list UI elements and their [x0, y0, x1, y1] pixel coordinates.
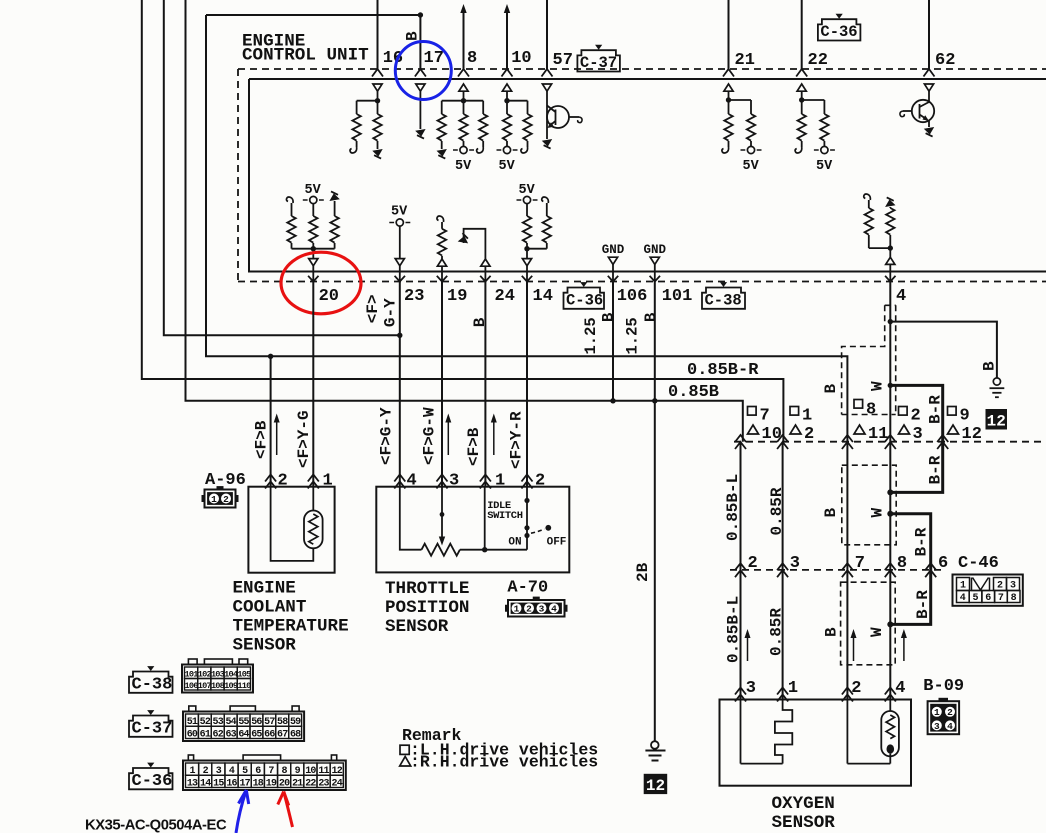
- svg-text:W: W: [868, 627, 886, 637]
- svg-text:A-96: A-96: [205, 471, 246, 490]
- svg-text:POSITION: POSITION: [385, 598, 469, 618]
- oxygen sensor element (meander): [740, 700, 742, 764]
- svg-text:B-R: B-R: [912, 527, 930, 556]
- svg-text:101: 101: [662, 287, 693, 306]
- svg-text:12: 12: [962, 425, 982, 444]
- junction block C-38 pin grid: [182, 659, 253, 693]
- svg-text:2: 2: [851, 679, 861, 698]
- svg-text:C-37: C-37: [580, 54, 617, 72]
- svg-text:KX35-AC-Q0504A-EC: KX35-AC-Q0504A-EC: [85, 818, 227, 833]
- svg-text:62: 62: [935, 51, 955, 70]
- pin square 8 / triangle 11: [854, 400, 863, 409]
- svg-text:5: 5: [972, 593, 978, 604]
- junction block C-37 pin grid: [183, 706, 304, 741]
- svg-text:ENGINE: ENGINE: [233, 579, 296, 599]
- svg-text:17: 17: [424, 49, 444, 68]
- svg-text:0.85B-L: 0.85B-L: [724, 596, 742, 663]
- svg-text:20: 20: [319, 287, 339, 306]
- svg-text:OXYGEN: OXYGEN: [772, 794, 835, 814]
- svg-text:C-46: C-46: [958, 554, 999, 573]
- svg-text:B: B: [822, 384, 840, 394]
- engine control unit ECU dashed border: [238, 68, 1046, 70]
- wire V4 B net across to oxygen column: [206, 15, 847, 442]
- svg-text:SWITCH: SWITCH: [487, 510, 523, 522]
- svg-text:<F>B: <F>B: [252, 420, 270, 459]
- svg-text:60: 60: [187, 729, 198, 740]
- svg-text:2: 2: [911, 407, 921, 426]
- svg-text:23: 23: [404, 287, 424, 306]
- branch arrow element at pin 24: [458, 233, 471, 246]
- svg-text:B-R: B-R: [926, 455, 944, 484]
- C-46 pin 8: [885, 563, 896, 577]
- svg-text:2: 2: [947, 707, 953, 718]
- wire 2B from pin 101 to ground: [654, 401, 656, 742]
- svg-text:5V: 5V: [391, 205, 408, 220]
- connector label C-36 (top): [818, 19, 861, 40]
- svg-text:1: 1: [802, 407, 812, 426]
- svg-text:C-38: C-38: [705, 291, 742, 309]
- svg-text:C-36: C-36: [820, 23, 857, 41]
- direction arrow (ECT pin2 wire): [276, 420, 278, 456]
- connector C-46 dashed line: [730, 569, 946, 571]
- svg-text:7: 7: [760, 407, 770, 426]
- svg-text:19: 19: [447, 287, 467, 306]
- wire 0.85B-L (pin 10/7 to C-46 pin2): [740, 442, 742, 570]
- svg-text:2: 2: [748, 554, 758, 573]
- wire pin19 to TPS pin3: [441, 282, 443, 488]
- connector label C-36 (mid): [564, 288, 605, 309]
- svg-text:5V: 5V: [499, 159, 516, 174]
- svg-text:21: 21: [292, 778, 303, 789]
- svg-text:1.25: 1.25: [582, 317, 600, 354]
- svg-text:18: 18: [253, 778, 264, 789]
- svg-text:B: B: [980, 361, 998, 371]
- TPS pin 3 terminal: [437, 475, 448, 489]
- svg-text:108: 108: [211, 681, 225, 691]
- svg-text:12: 12: [987, 413, 1006, 431]
- svg-text:B-R: B-R: [926, 395, 944, 424]
- resistor group at pin 10 with 5V supply: [502, 84, 511, 91]
- svg-text:3: 3: [746, 679, 756, 698]
- connector icon C-46: [953, 575, 1023, 606]
- svg-text:TEMPERATURE: TEMPERATURE: [233, 617, 349, 637]
- ECT pin 1 terminal: [308, 475, 319, 489]
- oxygen sensor box: [720, 700, 912, 786]
- dashed option box (B/W wires): [842, 465, 896, 545]
- wire pin20 to ECT pin1: [312, 282, 314, 488]
- svg-text:63: 63: [225, 729, 236, 740]
- svg-text:22: 22: [305, 778, 316, 789]
- svg-text:22: 22: [808, 51, 828, 70]
- svg-text:104: 104: [224, 669, 238, 679]
- pin square 9 / triangle 12: [948, 407, 957, 416]
- svg-text:B: B: [642, 313, 660, 322]
- svg-text:0.85B: 0.85B: [668, 383, 719, 402]
- wire pin 4 column down to inline connector (W net): [889, 282, 891, 442]
- svg-text:4: 4: [947, 721, 953, 732]
- svg-text:0.85R: 0.85R: [768, 487, 786, 535]
- dashed option box upper (stepped): [885, 304, 896, 306]
- wire pin101 to 0.85B line (2B): [654, 282, 656, 401]
- svg-text:3: 3: [539, 604, 545, 615]
- throttle position sensor box: [376, 487, 569, 573]
- svg-text:THROTTLE: THROTTLE: [385, 579, 469, 599]
- wire 0.85R (pin 2/1 to C-46 pin3): [782, 442, 784, 570]
- branch B-R to pin 9/12: [888, 383, 893, 388]
- svg-text:C-38: C-38: [132, 675, 173, 694]
- svg-text:9: 9: [960, 407, 970, 426]
- svg-text:1.25: 1.25: [624, 317, 642, 354]
- svg-text:4: 4: [551, 604, 557, 615]
- svg-text:B: B: [822, 508, 840, 518]
- wire W lower: [889, 570, 891, 700]
- wire ECU pin 8 with top arrow: [463, 12, 465, 69]
- svg-text:COOLANT: COOLANT: [233, 598, 307, 618]
- svg-text:8: 8: [897, 554, 907, 573]
- svg-text:4: 4: [895, 679, 905, 698]
- dashed option box lower: [841, 582, 896, 665]
- svg-text:23: 23: [318, 778, 329, 789]
- svg-text:<F>G-Y: <F>G-Y: [377, 407, 395, 465]
- C-46 pin 7: [842, 563, 853, 577]
- chassis ground symbol (2B): [651, 741, 659, 749]
- svg-text:7: 7: [998, 593, 1004, 604]
- svg-text:A-70: A-70: [507, 579, 548, 598]
- svg-text:1: 1: [934, 707, 940, 718]
- svg-text:57: 57: [553, 51, 573, 70]
- ground wire at pin 17: [416, 84, 425, 91]
- svg-text:CONTROL UNIT: CONTROL UNIT: [242, 46, 369, 66]
- svg-text:12: 12: [646, 777, 665, 795]
- wire B-R below C-46 joining W: [890, 570, 930, 625]
- TPS potentiometer wiring: [400, 487, 422, 550]
- red ellipse highlight on pin 20: [281, 252, 361, 314]
- svg-text:64: 64: [238, 729, 249, 740]
- svg-text:19: 19: [266, 778, 277, 789]
- svg-text:61: 61: [200, 729, 211, 740]
- svg-text:7: 7: [855, 554, 865, 573]
- svg-text:2: 2: [804, 425, 814, 444]
- C-46 pin 3: [777, 563, 788, 577]
- branch to ground B at right: [888, 319, 893, 324]
- svg-text:0.85B-L: 0.85B-L: [724, 474, 742, 541]
- svg-text:SENSOR: SENSOR: [385, 617, 449, 637]
- wire B (pin 11/8 to C-46 pin7): [846, 442, 848, 570]
- svg-text:13: 13: [187, 778, 198, 789]
- svg-text:10: 10: [511, 49, 531, 68]
- resistor group at pin 16: [373, 84, 382, 91]
- wire pin106 to 0.85B line: [612, 282, 614, 401]
- svg-text:W: W: [868, 508, 886, 518]
- svg-text:W: W: [868, 381, 886, 391]
- svg-text:<F>: <F>: [364, 294, 382, 323]
- transistor at pin 62: [924, 84, 933, 91]
- resistor group at pin 8 with 5V supply: [459, 84, 468, 91]
- oxygen sensor heater: [846, 700, 848, 764]
- page reference 12 black box: [986, 409, 1008, 430]
- connector icon A-96: [205, 490, 236, 508]
- C-46 pin 2: [735, 563, 746, 577]
- svg-text:106: 106: [617, 287, 648, 306]
- wire ECU pin 10 with top arrow: [506, 12, 508, 69]
- svg-text:20: 20: [279, 778, 290, 789]
- svg-text:109: 109: [224, 681, 238, 691]
- inline connector dashed line (LH/RH options): [734, 441, 1046, 443]
- oxygen sensor pin 4: [885, 688, 896, 702]
- svg-text:101: 101: [185, 669, 199, 679]
- svg-text:<F>Y-G: <F>Y-G: [295, 410, 313, 468]
- wire ECU pin 57: [546, 0, 548, 69]
- svg-text:2B: 2B: [634, 562, 652, 582]
- svg-text:5V: 5V: [743, 159, 760, 174]
- svg-text::R.H.drive vehicles: :R.H.drive vehicles: [410, 753, 598, 772]
- svg-text:66: 66: [264, 729, 275, 740]
- svg-text:4: 4: [896, 287, 906, 306]
- svg-text:24: 24: [332, 778, 343, 789]
- wire pin23 to TPS pin4: [399, 282, 401, 488]
- svg-text:3: 3: [934, 721, 940, 732]
- wire 0.85R lower: [782, 570, 784, 700]
- wire ECU pin 21: [728, 0, 730, 69]
- wire ECU pin 62: [928, 0, 930, 69]
- svg-text:B: B: [822, 627, 840, 637]
- svg-text:15: 15: [213, 778, 224, 789]
- svg-text:107: 107: [198, 681, 212, 691]
- pin square 2 / triangle 3: [899, 407, 908, 416]
- svg-text:65: 65: [251, 729, 262, 740]
- TPS pin 1 terminal: [480, 475, 491, 489]
- svg-text:14: 14: [200, 778, 211, 789]
- resistor group at pin 21 with 5V supply: [724, 84, 733, 91]
- wire ECT pin2 branch from B net: [270, 356, 272, 487]
- svg-text:0.85B-R: 0.85B-R: [687, 361, 759, 380]
- svg-text:21: 21: [735, 51, 755, 70]
- ground symbol (B wire): [993, 378, 1000, 385]
- svg-text:GND: GND: [644, 243, 667, 257]
- svg-text:105: 105: [237, 669, 251, 679]
- svg-text:6: 6: [985, 593, 991, 604]
- svg-text:3: 3: [790, 554, 800, 573]
- svg-text:<F>B: <F>B: [465, 427, 483, 466]
- resistor above pin 19: [437, 216, 444, 222]
- svg-text:ON: ON: [508, 537, 521, 549]
- connector icon A-70: [508, 600, 565, 617]
- engine coolant temperature sensor box: [248, 487, 334, 573]
- TPS wiper arrow (pin 3): [441, 487, 443, 538]
- svg-text:8: 8: [467, 49, 477, 68]
- wire W1 horizontal to pin 17 (B net): [206, 15, 420, 69]
- svg-text:0.85R: 0.85R: [767, 608, 785, 656]
- wire V2 to pin 23: [164, 0, 400, 335]
- thermistor element: [304, 511, 323, 549]
- svg-text:G-Y: G-Y: [381, 298, 399, 327]
- ECU top pin terminals: [372, 69, 383, 77]
- svg-text:OFF: OFF: [547, 537, 567, 549]
- wire 0.85B-L lower: [740, 570, 742, 700]
- C-46 pin 6: [925, 563, 936, 577]
- svg-text:<F>G-W: <F>G-W: [420, 407, 438, 465]
- svg-text:B: B: [600, 313, 618, 322]
- svg-text:B-R: B-R: [914, 590, 932, 619]
- oxygen sensor pin 3: [735, 688, 746, 702]
- junction block C-36 pin grid: [183, 755, 346, 790]
- resistor group above pin 4: [864, 194, 871, 200]
- svg-text:68: 68: [290, 729, 301, 740]
- svg-text:4: 4: [960, 593, 966, 604]
- remark LH drive line: [400, 745, 409, 754]
- svg-text:8: 8: [866, 401, 876, 420]
- wire ECU pin 22: [801, 0, 803, 69]
- wire ECU pin 16 from top edge: [377, 0, 379, 69]
- svg-text:GND: GND: [602, 243, 625, 257]
- svg-text:3: 3: [913, 425, 923, 444]
- svg-text:17: 17: [239, 778, 250, 789]
- svg-text:8: 8: [1011, 593, 1017, 604]
- wire V1 0.85B-R from top-left: [142, 0, 784, 442]
- svg-text:14: 14: [533, 287, 553, 306]
- svg-text:5V: 5V: [816, 159, 833, 174]
- svg-text:1: 1: [211, 494, 217, 505]
- svg-text:C-36: C-36: [566, 291, 603, 309]
- svg-text:C-36: C-36: [132, 772, 173, 791]
- svg-text:SENSOR: SENSOR: [772, 813, 836, 833]
- TPS pin 2 terminal: [522, 475, 533, 489]
- svg-text:SENSOR: SENSOR: [233, 636, 297, 656]
- svg-text:103: 103: [211, 669, 225, 679]
- svg-text:<F>Y-R: <F>Y-R: [507, 411, 525, 469]
- svg-text:1: 1: [788, 679, 798, 698]
- blue circle highlight on pin 17: [395, 42, 451, 100]
- ECT pin 2 terminal: [265, 475, 276, 489]
- ECU inner solid border: [249, 78, 1046, 80]
- svg-text:106: 106: [185, 681, 199, 691]
- svg-text:B-09: B-09: [923, 677, 964, 696]
- svg-text:110: 110: [237, 681, 251, 691]
- pin square 7 / triangle 10: [748, 407, 757, 416]
- connector icon B-09: [928, 701, 960, 734]
- wire pin24 to TPS pin1: [484, 282, 486, 488]
- svg-text:1: 1: [514, 604, 520, 615]
- connector label C-38 (mid): [702, 288, 745, 309]
- svg-text:67: 67: [277, 729, 288, 740]
- svg-text:C-37: C-37: [132, 719, 173, 738]
- remark RH drive line: [400, 757, 411, 767]
- wire B lower: [846, 570, 848, 700]
- svg-text:6: 6: [938, 554, 948, 573]
- wire V3 0.85B from top-left: [186, 0, 743, 442]
- svg-text:102: 102: [198, 669, 212, 679]
- TPS pin 4 terminal: [394, 475, 405, 489]
- wire W (pin 3/2 to C-46 pin8): [889, 442, 891, 570]
- resistor group at pin 22 with 5V supply: [797, 84, 806, 91]
- svg-text:B: B: [403, 31, 421, 41]
- wire B-R branch to C-46 pin6: [887, 511, 893, 517]
- svg-text:2: 2: [526, 604, 532, 615]
- transistor at pin 57: [542, 84, 551, 91]
- red arrow to C-36 pin 20: [284, 792, 293, 828]
- svg-text:16: 16: [226, 778, 237, 789]
- idle switch: [526, 487, 528, 534]
- pin square 1 / triangle 2: [790, 407, 799, 416]
- connector label C-37 (bottom): [129, 716, 173, 737]
- svg-text:24: 24: [495, 287, 515, 306]
- svg-text:62: 62: [213, 729, 224, 740]
- svg-text:5V: 5V: [455, 159, 472, 174]
- ECT internal wiring: [271, 487, 314, 561]
- ECU bottom pin terminals: [308, 276, 318, 282]
- page reference 12 black box (bottom): [644, 774, 668, 794]
- connector label C-36 (bottom): [129, 768, 173, 789]
- blue arrow to C-36 pin 17: [236, 790, 246, 833]
- connector label C-38 (bottom): [129, 672, 173, 693]
- wire B-R from triangle 12 joining W: [890, 442, 942, 493]
- oxygen sensor pin 2: [842, 688, 853, 702]
- oxygen sensor pin 1: [777, 688, 788, 702]
- direction arrow (TPS pin1 wire): [493, 420, 495, 456]
- svg-text:2: 2: [223, 494, 229, 505]
- svg-text:B: B: [471, 317, 489, 327]
- direction arrow (TPS pin3 wire): [447, 420, 449, 456]
- wire pin14 to TPS pin2: [526, 282, 528, 488]
- connector label C-37 (top): [577, 50, 620, 71]
